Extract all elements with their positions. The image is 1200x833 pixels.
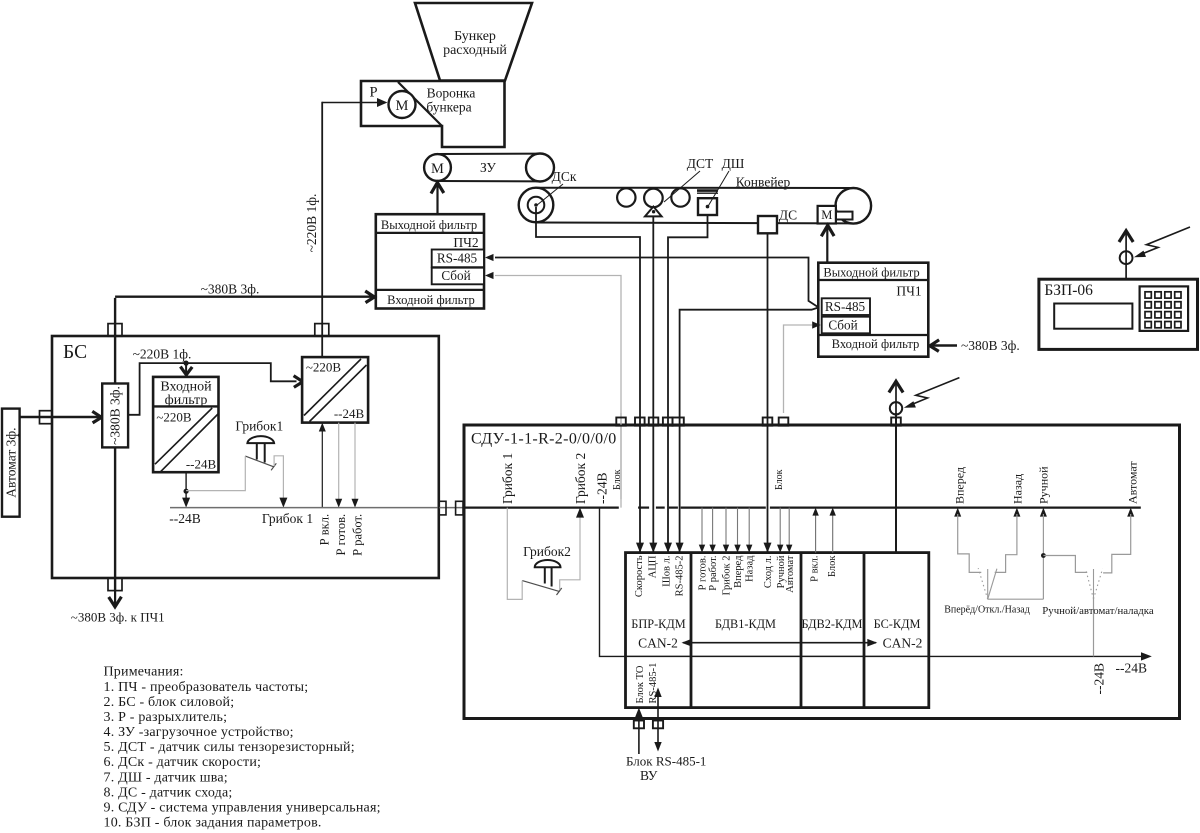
wire Р arrow into motor M	[322, 98, 387, 107]
svg-text:Блок: Блок	[827, 555, 838, 577]
block СДУ-1-1-R-2-0/0/0/0	[464, 425, 1180, 719]
switch Ручной/автомат/наладка	[1037, 461, 1154, 657]
svg-text:М: М	[821, 208, 832, 222]
svg-text:Р: Р	[369, 85, 377, 101]
wire RS-485 net ПЧ2-ПЧ1-СДУ	[485, 254, 818, 553]
svg-text:Назад: Назад	[745, 555, 756, 582]
wire --24В from Входной фильтр to bus	[169, 472, 201, 526]
svg-text:БДВ2-КДМ: БДВ2-КДМ	[802, 617, 863, 631]
svg-text:Вперёд/Откл./Назад: Вперёд/Откл./Назад	[944, 605, 1030, 616]
svg-text:--24В: --24В	[1092, 663, 1107, 695]
node label Блок (right, gray)	[774, 469, 785, 490]
wire --24В horizontal with arrow	[929, 652, 1152, 675]
svg-text:ДСТ: ДСТ	[687, 156, 714, 171]
svg-text:CAN-2: CAN-2	[638, 636, 678, 651]
svg-text:7. ДШ - датчик шва;: 7. ДШ - датчик шва;	[104, 770, 228, 785]
block ~380В 3ф. (input breaker)	[102, 384, 128, 448]
svg-text:ДСк: ДСк	[552, 169, 577, 184]
svg-text:Р вкл.: Р вкл.	[318, 514, 332, 545]
svg-text:Выходной фильтр: Выходной фильтр	[823, 265, 919, 279]
wire Блок (to ВУ)	[635, 708, 642, 754]
modules box БПР/БДВ1/БДВ2/БС-КДМ	[626, 553, 929, 708]
svg-text:9. СДУ - система управления ун: 9. СДУ - система управления универсальна…	[104, 800, 381, 815]
button Грибок1	[186, 419, 313, 527]
svg-text:--24В: --24В	[334, 406, 365, 421]
notes Примечания	[104, 665, 381, 831]
block ПЧ2 (frequency converter 2)	[376, 214, 484, 308]
node label --24В (СДУ)	[595, 473, 610, 505]
wire БС-КДМ from terminal (antenna line)	[895, 413, 897, 553]
svg-text:Грибок1: Грибок1	[235, 419, 283, 434]
block Входной фильтр (БС) with AC/DC converter	[153, 377, 218, 472]
terminal БС bottom	[108, 578, 122, 591]
svg-text:ПЧ2: ПЧ2	[453, 235, 478, 250]
motor M of Конвейер	[818, 206, 853, 224]
terminal БС right edge	[439, 501, 446, 515]
svg-text:ЗУ: ЗУ	[480, 160, 496, 175]
svg-text:БС: БС	[63, 342, 87, 363]
label Блок RS-485-1 / ВУ	[626, 754, 706, 784]
svg-text:Р готов.: Р готов.	[698, 556, 709, 591]
sensor ДШ (seam sensor)	[697, 156, 745, 215]
terminal БС left edge	[40, 411, 53, 424]
device БЗП-06	[1039, 279, 1198, 349]
wire Сбой ПЧ1 from СДУ (gray)	[784, 321, 821, 413]
svg-text:6. ДСк - датчик скорости;: 6. ДСк - датчик скорости;	[104, 755, 262, 770]
svg-text:Вперед: Вперед	[733, 555, 744, 588]
svg-text:3. Р - разрыхлитель;: 3. Р - разрыхлитель;	[104, 710, 228, 725]
svg-text:Блок RS-485-1: Блок RS-485-1	[626, 754, 706, 769]
wire Сбой ПЧ2 to СДУ (gray)	[485, 272, 621, 508]
svg-text:8. ДС - датчик схода;: 8. ДС - датчик схода;	[104, 785, 233, 800]
svg-text:Р готов.: Р готов.	[334, 514, 348, 556]
wire --24В tap down (СДУ)	[600, 508, 626, 657]
svg-text:Р работ.: Р работ.	[350, 514, 364, 556]
motor M of Воронка	[389, 91, 416, 118]
wire ПЧ2 to ЗУ motor (arrow up)	[431, 183, 444, 215]
svg-text:М: М	[431, 161, 444, 177]
sensor ДСТ (roller + triangle)	[644, 156, 714, 216]
funnel Воронка бункера	[361, 81, 505, 147]
block Автомат 3ф.	[2, 409, 20, 517]
svg-text:--24В: --24В	[169, 511, 201, 526]
svg-text:~380В 3ф. к ПЧ1: ~380В 3ф. к ПЧ1	[71, 610, 165, 625]
svg-text:--24В: --24В	[1116, 661, 1148, 676]
svg-text:СДУ-1-1-R-2-0/0/0/0: СДУ-1-1-R-2-0/0/0/0	[471, 431, 617, 448]
wires bus to БДВ1 (thin, arrows down)	[699, 508, 793, 553]
node label --24В (vertical, switch2 pole)	[1092, 663, 1107, 695]
node label Грибок 2 (СДУ)	[573, 453, 588, 504]
svg-text:~380В 3ф.: ~380В 3ф.	[201, 282, 260, 297]
bus trunk --24В (БС section)	[170, 507, 464, 509]
svg-text:~220В: ~220В	[306, 360, 342, 375]
terminal СДУ bottom (RS-485-1)	[653, 721, 663, 729]
terminal СДУ left edge	[456, 501, 463, 515]
svg-text:~220В 1ф.: ~220В 1ф.	[304, 194, 319, 253]
antenna СДУ	[889, 381, 903, 414]
svg-text:Воронка: Воронка	[427, 86, 476, 101]
svg-text:БЗП-06: БЗП-06	[1044, 282, 1093, 299]
svg-text:RS-485: RS-485	[825, 299, 866, 314]
lightning СДУ	[904, 378, 960, 408]
svg-text:Р вкл.: Р вкл.	[810, 556, 821, 582]
wire Р вкл. (bus up into converter)	[318, 423, 332, 546]
svg-text:ПЧ1: ПЧ1	[896, 284, 921, 299]
sensor ДС (runoff sensor)	[758, 208, 797, 234]
svg-text:АЦП: АЦП	[647, 555, 658, 578]
wire Р готов. (converter down to bus, gray)	[334, 423, 348, 556]
wire Блок gray left (terminal to bus)	[620, 413, 622, 499]
conveyor Конвейер	[536, 175, 871, 224]
svg-text:CAN-2: CAN-2	[883, 636, 923, 651]
wire ПЧ1 to conveyor motor M (arrow up)	[821, 225, 834, 262]
wire ДС to СДУ (Сход л.)	[764, 233, 772, 552]
svg-text:Назад: Назад	[1011, 474, 1025, 504]
svg-text:расходный: расходный	[443, 43, 507, 58]
svg-text:фильтр: фильтр	[165, 393, 208, 408]
svg-text:Входной фильтр: Входной фильтр	[387, 293, 475, 307]
switch Вперёд/Откл./Назад	[944, 467, 1043, 616]
svg-text:10. БЗП - блок задания парамет: 10. БЗП - блок задания параметров.	[104, 816, 322, 831]
lightning БЗП-06	[1134, 227, 1190, 257]
svg-text:Грибок 1: Грибок 1	[262, 511, 313, 526]
node label Грибок 1 (СДУ)	[500, 453, 515, 504]
pin labels БПР-КДМ inputs	[634, 555, 686, 597]
svg-text:БС-КДМ: БС-КДМ	[874, 617, 921, 631]
terminals СДУ top edge	[616, 418, 901, 426]
svg-text:~220В 1ф.: ~220В 1ф.	[133, 347, 192, 362]
wire ~220В 1ф. internal distribution	[128, 347, 303, 415]
svg-text:Бункер: Бункер	[454, 29, 496, 44]
svg-text:Ручной/автомат/наладка: Ручной/автомат/наладка	[1042, 605, 1154, 617]
svg-text:Автомат: Автомат	[1126, 461, 1140, 504]
svg-text:~220В: ~220В	[156, 410, 192, 425]
svg-text:бункера: бункера	[426, 100, 471, 115]
svg-text:Грибок2: Грибок2	[523, 544, 571, 559]
wires БДВ2 to bus (thin, arrows up)	[812, 508, 836, 553]
node label Блок (left, gray)	[612, 469, 623, 490]
svg-text:Блок ТО: Блок ТО	[635, 665, 646, 703]
svg-text:1. ПЧ - преобразователь частот: 1. ПЧ - преобразователь частоты;	[104, 680, 309, 695]
svg-text:ДС: ДС	[779, 208, 797, 223]
svg-text:Сход л.: Сход л.	[763, 556, 774, 589]
svg-text:RS-485: RS-485	[437, 251, 478, 266]
svg-text:RS-485-2: RS-485-2	[675, 556, 686, 597]
svg-text:2. БС - блок силовой;: 2. БС - блок силовой;	[104, 695, 235, 710]
svg-text:Автомат 3ф.: Автомат 3ф.	[4, 427, 19, 497]
svg-text:ДШ: ДШ	[722, 156, 745, 171]
wire ДШ to СДУ	[664, 215, 708, 553]
svg-text:Грибок 2: Грибок 2	[573, 453, 588, 504]
svg-text:Конвейер: Конвейер	[736, 175, 791, 190]
svg-text:Грибок 2: Грибок 2	[722, 556, 733, 596]
block ПЧ1 (frequency converter 1)	[818, 263, 928, 357]
svg-text:Выходной фильтр: Выходной фильтр	[381, 218, 477, 232]
label Р (разрыхлитель)	[369, 85, 377, 101]
wire ~380В 3ф. к ПЧ1 (down arrow out of БС)	[71, 591, 165, 625]
sensor ДСк (drum with speed sensor)	[519, 169, 577, 222]
svg-text:Скорость: Скорость	[634, 555, 645, 597]
wire CAN-2 between БПР and БС-КДМ	[638, 636, 922, 651]
svg-text:5. ДСТ - датчик силы тензорези: 5. ДСТ - датчик силы тензорезисторный;	[104, 740, 355, 755]
svg-text:~380В 3ф.: ~380В 3ф.	[108, 386, 123, 445]
bus trunk СДУ (with gaps at crossing wires)	[464, 507, 1141, 509]
svg-text:ВУ: ВУ	[640, 768, 658, 783]
svg-text:Грибок 1: Грибок 1	[500, 453, 515, 504]
conveyor ЗУ	[438, 154, 555, 182]
wire ДСТ to СДУ	[649, 216, 657, 552]
svg-text:Вперед: Вперед	[953, 467, 967, 504]
section Блок ТО / RS-485-1	[635, 663, 659, 704]
svg-text:--24В: --24В	[595, 473, 610, 505]
button Грибок2	[507, 508, 584, 600]
terminal БС top (~380В)	[108, 324, 122, 337]
keypad keys БЗП-06	[1145, 292, 1181, 328]
motor M of ЗУ	[424, 154, 451, 181]
svg-text:Сбой: Сбой	[828, 317, 857, 332]
svg-text:Входной фильтр: Входной фильтр	[832, 337, 920, 351]
svg-text:Шов л.: Шов л.	[662, 556, 673, 587]
terminal БС top (~220В 1ф.)	[315, 324, 329, 337]
svg-text:Блок: Блок	[774, 469, 785, 490]
svg-text:БПР-КДМ: БПР-КДМ	[631, 617, 685, 631]
antenna БЗП-06	[1119, 231, 1133, 280]
wire ДСк to СДУ	[536, 207, 644, 553]
pin labels БДВ2-КДМ	[810, 555, 839, 582]
svg-text:М: М	[396, 98, 409, 114]
converter ~220В/--24В (right, in БС)	[302, 357, 368, 423]
svg-text:Примечания:: Примечания:	[104, 665, 184, 680]
svg-text:БДВ1-КДМ: БДВ1-КДМ	[715, 617, 776, 631]
wire ~380В 3ф. main (vertical through БС, horizontal to ПЧ2)	[115, 282, 374, 592]
wire ~220В 1ф. from Воронка down to БС converter	[304, 102, 322, 357]
svg-text:~380В 3ф.: ~380В 3ф.	[961, 338, 1020, 353]
wire Р работ. (converter down to bus, gray)	[350, 423, 364, 556]
conveyor rollers	[617, 188, 690, 206]
terminal СДУ bottom (Блок)	[634, 721, 644, 729]
wire RS-485-1 (to ВУ, double arrow)	[654, 688, 661, 752]
svg-text:4. ЗУ -загрузочное устройство;: 4. ЗУ -загрузочное устройство;	[104, 725, 294, 740]
wire ~380В 3ф. stub into ПЧ1	[930, 338, 1020, 353]
svg-text:Автомат: Автомат	[785, 555, 796, 593]
hopper Бункер расходный	[415, 3, 532, 81]
block БС (power unit)	[52, 336, 439, 578]
wire Автомат 3ф. into ~380В 3ф. box	[20, 411, 102, 423]
svg-text:Ручной: Ручной	[1037, 466, 1051, 504]
svg-text:Р работ.: Р работ.	[708, 556, 719, 591]
pin labels БДВ1-КДМ inputs	[698, 555, 797, 596]
svg-text:--24В: --24В	[186, 457, 217, 472]
svg-text:Сбой: Сбой	[441, 268, 470, 283]
